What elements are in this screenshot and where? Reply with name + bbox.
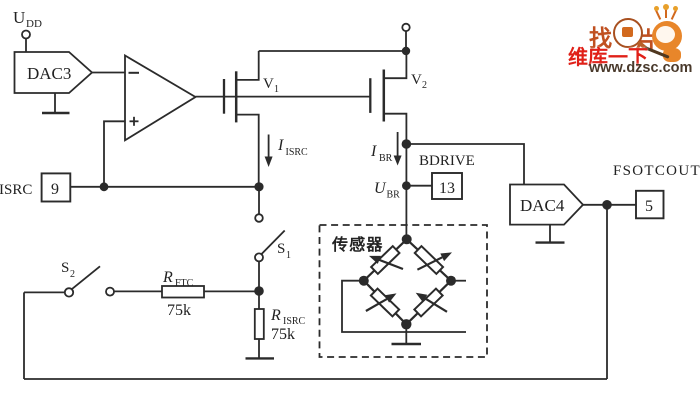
pin box 5 bbox=[636, 191, 664, 219]
svg-text:FSOTCOUT: FSOTCOUT bbox=[613, 163, 700, 179]
junction RFTC rail bbox=[254, 286, 264, 296]
svg-text:U: U bbox=[13, 8, 25, 27]
watermark magnifier bbox=[613, 18, 643, 48]
resistor RISRC bbox=[255, 307, 306, 343]
bridge node top bbox=[402, 234, 412, 244]
svg-text:I: I bbox=[277, 137, 284, 154]
current arrow I-BR bbox=[370, 132, 402, 166]
node UBR label bbox=[374, 180, 400, 201]
svg-text:13: 13 bbox=[439, 180, 455, 197]
transistor V2 bbox=[370, 51, 427, 144]
wire RISRC to ground bbox=[258, 339, 260, 358]
bridge arm top-right bbox=[407, 239, 452, 280]
wire S1 lower contact to rail bbox=[258, 261, 260, 291]
wire BDRIVE to DAC4 bbox=[406, 144, 524, 185]
svg-text:R: R bbox=[270, 307, 281, 324]
svg-text:U: U bbox=[374, 180, 387, 197]
wire V2 source to bridge top bbox=[405, 144, 407, 239]
svg-text:9: 9 bbox=[51, 181, 59, 198]
watermark url bbox=[589, 60, 692, 76]
svg-text:75k: 75k bbox=[271, 326, 295, 343]
wire top rail V1 drain to V2 drain bbox=[259, 50, 406, 52]
terminal RFTC left bbox=[106, 288, 114, 296]
DAC4 U-DAC4 bbox=[510, 185, 583, 225]
ground under DAC3 bbox=[42, 93, 70, 113]
junction top rail bbox=[402, 47, 410, 55]
terminal top of V2 bbox=[402, 24, 409, 31]
wire junction to RISRC bbox=[258, 291, 260, 309]
wire DAC3 output to op-amp inverting input bbox=[92, 72, 125, 74]
sensor dashed box bbox=[320, 225, 488, 357]
svg-text:75k: 75k bbox=[167, 302, 191, 319]
pin box 13 bbox=[432, 173, 462, 199]
svg-text:5: 5 bbox=[645, 198, 653, 215]
svg-text:R: R bbox=[162, 269, 173, 286]
junction UBR bbox=[402, 181, 411, 190]
resistor RFTC bbox=[162, 269, 204, 319]
svg-text:S: S bbox=[277, 241, 285, 257]
svg-text:ISRC: ISRC bbox=[0, 182, 32, 198]
bridge arm bottom-left bbox=[364, 281, 407, 325]
transistor V1 bbox=[224, 51, 279, 187]
switch S2 bbox=[61, 260, 100, 297]
DAC3 U-DAC3 bbox=[15, 52, 93, 93]
svg-text:FTC: FTC bbox=[175, 278, 194, 289]
wire down to S1 upper contact bbox=[258, 187, 260, 214]
svg-text:2: 2 bbox=[70, 269, 75, 280]
bridge arm bottom-right bbox=[406, 281, 451, 325]
wire DAC4 output to box 5 bbox=[583, 204, 636, 206]
wire right vertical bbox=[606, 205, 608, 379]
wire bridge left loop bbox=[342, 281, 466, 332]
terminal UDD bbox=[22, 31, 30, 39]
svg-text:2: 2 bbox=[422, 80, 427, 91]
svg-text:S: S bbox=[61, 260, 69, 276]
junction ISRC rail at V1 source bbox=[254, 182, 263, 191]
watermark mascot bbox=[652, 21, 682, 51]
svg-text:BR: BR bbox=[379, 153, 393, 164]
watermark text 维库一下 bbox=[568, 41, 648, 70]
wire UDD to DAC3 bbox=[25, 39, 27, 53]
node UDD label bbox=[13, 8, 42, 30]
bridge node bottom bbox=[401, 319, 411, 329]
wire left vertical bbox=[23, 292, 25, 379]
bridge arm top-left bbox=[364, 239, 407, 280]
svg-text:BDRIVE: BDRIVE bbox=[419, 153, 475, 169]
junction BDRIVE tap bbox=[402, 139, 412, 149]
ground under bridge bbox=[392, 343, 422, 345]
current arrow I-ISRC bbox=[265, 135, 308, 168]
svg-text:DAC3: DAC3 bbox=[27, 64, 71, 83]
svg-text:V: V bbox=[263, 76, 274, 92]
wire terminal to junction bbox=[405, 31, 407, 51]
bridge node left bbox=[359, 276, 369, 286]
ground under DAC4 bbox=[536, 225, 565, 243]
svg-text:BR: BR bbox=[387, 190, 401, 201]
svg-text:DD: DD bbox=[26, 18, 42, 30]
svg-text:1: 1 bbox=[274, 84, 279, 95]
wire bridge bottom to ground bbox=[405, 324, 407, 344]
wire UBR to box 13 bbox=[406, 185, 432, 187]
wire op-amp noninverting input bbox=[104, 121, 125, 187]
bridge node right bbox=[446, 276, 456, 286]
wire ISRC rail bbox=[70, 186, 259, 188]
wire RFTC right bbox=[204, 290, 259, 292]
wire RFTC left bbox=[114, 290, 162, 292]
svg-text:传感器: 传感器 bbox=[331, 235, 384, 254]
wire bottom rail bbox=[24, 378, 607, 380]
ground under RISRC bbox=[246, 357, 275, 359]
svg-text:DAC4: DAC4 bbox=[520, 196, 565, 215]
svg-text:I: I bbox=[370, 143, 377, 160]
pin box 9 bbox=[42, 173, 71, 201]
junction FSOTCOUT bbox=[602, 200, 612, 210]
svg-text:ISRC: ISRC bbox=[286, 147, 309, 158]
wire S2 to left rail bbox=[24, 291, 65, 293]
svg-text:1: 1 bbox=[286, 250, 291, 261]
junction ISRC rail at op-amp input bbox=[100, 182, 109, 191]
svg-text:V: V bbox=[411, 72, 422, 88]
wire bridge right stub bbox=[451, 280, 466, 282]
op-amp U1 bbox=[125, 56, 196, 141]
watermark logo 找芯片 bbox=[586, 13, 700, 79]
wire op-amp output / gate line to V1 and V2 bbox=[196, 96, 371, 98]
switch S1 bbox=[255, 214, 291, 261]
